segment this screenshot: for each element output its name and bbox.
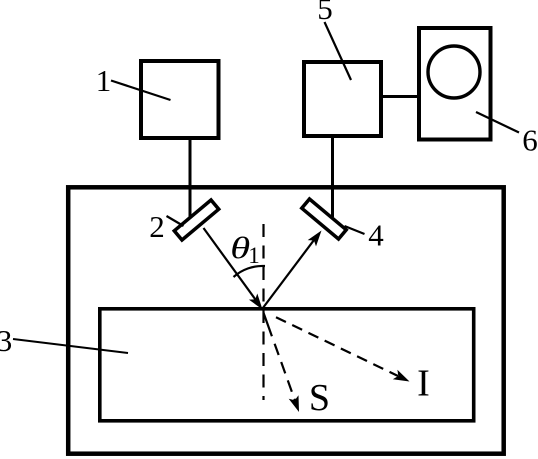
svg-text:θ: θ — [230, 231, 250, 265]
svg-text:4: 4 — [368, 218, 384, 253]
svg-text:1: 1 — [96, 63, 112, 98]
svg-text:S: S — [309, 377, 330, 419]
svg-text:2: 2 — [149, 209, 165, 244]
svg-text:5: 5 — [317, 0, 333, 26]
svg-text:3: 3 — [0, 323, 12, 358]
svg-text:I: I — [417, 363, 430, 405]
svg-text:1: 1 — [248, 243, 260, 268]
svg-text:6: 6 — [522, 123, 538, 158]
